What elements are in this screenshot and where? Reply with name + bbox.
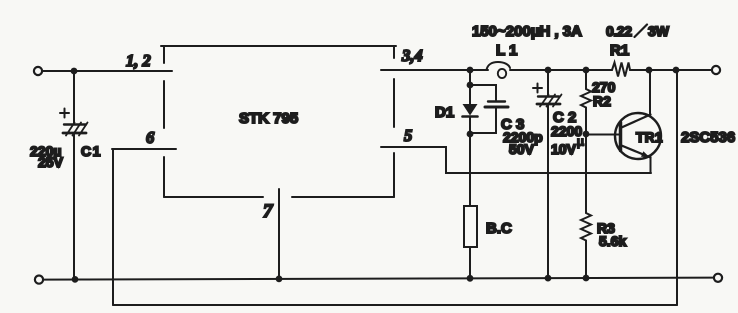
wire input to pin 1,2 [42,70,172,72]
svg-text:D1: D1 [435,104,454,121]
wire base [586,134,619,136]
wire feedback from pin 6 down [112,149,114,305]
svg-text:2SC536: 2SC536 [681,129,735,146]
svg-text:5.6k: 5.6k [599,233,626,249]
node D1/C3 split junction [467,82,474,89]
svg-text:5: 5 [404,126,412,145]
resistor B.C box body [464,206,477,247]
node ground C2 [545,275,552,282]
capacitor C2 [533,84,562,107]
wire feedback up to output rail [676,70,678,305]
svg-text:STK 795: STK 795 [239,110,298,127]
node D1 top junction [467,67,474,74]
svg-text:B.C: B.C [486,220,512,237]
svg-text:R2: R2 [593,93,611,109]
wire C1 top lead [73,71,75,124]
svg-text:TR1: TR1 [636,130,663,145]
resistor R2 [581,70,591,134]
capacitor C3 [470,85,508,133]
node R2 junction [583,67,590,74]
terminal input top-left [34,67,42,75]
svg-text:50V: 50V [509,141,535,157]
inductor L1 [487,62,511,70]
node ground R3 [583,275,590,282]
wire L1 to C2 node [510,69,612,71]
node ground B.C [467,275,474,282]
svg-text:1, 2: 1, 2 [126,51,151,70]
pin 3,4 wire [381,69,488,71]
terminal bottom-right [714,274,722,282]
wire to D1 branch [469,70,471,85]
terminal output top-right [712,66,720,74]
pin 7 wire [278,189,280,279]
pin 5 wire [381,147,651,173]
node base junction [583,131,590,138]
pin 6 wire [112,148,176,150]
IC U1 STK795 outline [161,46,396,197]
node collector junction [646,67,653,74]
svg-text:µ: µ [577,135,584,149]
svg-text:R1: R1 [610,42,629,59]
wire C2 bottom lead [547,104,549,278]
ground rail bottom [43,278,714,280]
capacitor C1 [60,109,88,136]
svg-text:25V: 25V [38,154,64,170]
svg-text:10V: 10V [551,141,577,157]
wire R1 to output terminal [630,69,712,71]
transistor TR1 [615,70,661,173]
wire C2 top lead [547,70,549,96]
diode D1 [463,85,478,134]
svg-text:0.22: 0.22 [606,23,632,39]
node input junction at C1 [71,68,78,75]
wire R2 node to R3 [585,134,587,213]
wire B.C to ground rail [469,247,471,278]
resistor R1 [612,63,630,77]
wire D1 to B.C [469,134,471,206]
wire C1 bottom lead [73,133,75,279]
svg-text:6: 6 [146,128,155,147]
node output feedback junction [673,67,680,74]
svg-text:3W: 3W [648,23,670,39]
svg-text:L 1: L 1 [496,42,517,59]
svg-text:C1: C1 [81,143,102,159]
svg-text:7: 7 [263,201,274,222]
node ground pin7 [276,276,283,283]
resistor R3 [581,213,591,278]
node C2 junction [545,67,552,74]
node ground C1 [72,276,79,283]
svg-text:150~200µH , 3A: 150~200µH , 3A [472,23,582,40]
wire feedback bottom run [113,304,677,306]
node D1 bottom junction [467,131,474,138]
svg-text:3,4: 3,4 [401,46,423,65]
terminal bottom-left [35,276,43,284]
